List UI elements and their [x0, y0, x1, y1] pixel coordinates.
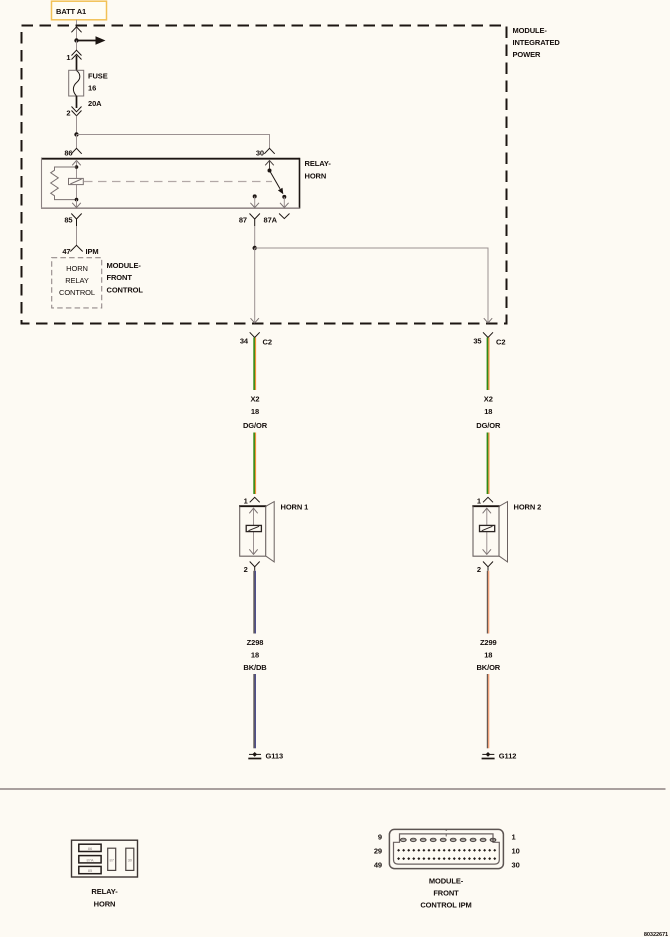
- label RELAY-HORN: [305, 159, 332, 181]
- svg-text:CONTROL: CONTROL: [107, 285, 144, 294]
- connector C2 pin 35: [473, 332, 505, 346]
- svg-text:G112: G112: [499, 751, 517, 760]
- svg-text:BK/DB: BK/DB: [243, 663, 267, 672]
- connector horn pin 1: [244, 496, 260, 505]
- svg-text:DG/OR: DG/OR: [243, 421, 268, 430]
- svg-text:47: 47: [62, 247, 70, 256]
- separator line: [0, 788, 666, 790]
- connector horn pin 2: [244, 562, 260, 575]
- wire junction across to relay pin 30: [77, 135, 270, 149]
- svg-text:87A: 87A: [86, 857, 93, 862]
- wire from BATT A1 into module: [71, 20, 81, 41]
- svg-text:HORN: HORN: [66, 264, 88, 273]
- arrow feed continues right: [77, 36, 106, 45]
- wire pin 2 down to junction: [76, 116, 78, 135]
- svg-text:HORN: HORN: [94, 899, 116, 908]
- label circuit X2 18 DG/OR right: [476, 395, 501, 431]
- svg-text:86: 86: [88, 846, 93, 851]
- svg-text:G113: G113: [266, 751, 284, 760]
- svg-text:35: 35: [473, 337, 481, 346]
- wire Z299 18 BK/OR (upper segment): [486, 571, 488, 634]
- label RELAY-HORN (connector view): [91, 887, 118, 908]
- connector view RELAY-HORN cavity layout: [72, 840, 138, 877]
- ground G112: [482, 751, 517, 760]
- relay contact 87: [250, 194, 259, 207]
- wire junction down to C2 pin 34 with arrow: [251, 248, 259, 323]
- svg-text:86: 86: [64, 148, 72, 157]
- relay mechanical link (dashed): [84, 181, 272, 183]
- relay suppression resistor (zigzag): [51, 167, 77, 200]
- svg-text:MODULE-: MODULE-: [429, 876, 464, 885]
- svg-text:HORN 1: HORN 1: [281, 502, 309, 511]
- node HORN RELAY CONTROL (dashed box): [52, 258, 102, 308]
- wire pin 85 to IPM pin 47: [76, 226, 78, 245]
- svg-text:29: 29: [374, 846, 382, 855]
- svg-text:49: 49: [374, 860, 382, 869]
- wire branch to C2 pin 35 with arrow: [255, 248, 493, 323]
- connector pin 1 (double chevron): [66, 50, 81, 62]
- connector pin 87A (V): [264, 214, 290, 225]
- label circuit X2 18 DG/OR left: [243, 395, 268, 431]
- svg-text:C2: C2: [496, 338, 505, 347]
- svg-text:2: 2: [244, 565, 248, 574]
- node BATT A1 battery feed box: [52, 1, 107, 20]
- connector horn pin 1: [477, 496, 493, 505]
- svg-text:Z298: Z298: [247, 638, 264, 647]
- wire X2 18 DG/OR (left, lower segment): [253, 433, 255, 495]
- connector pin 47 IPM chevron: [62, 245, 98, 256]
- svg-text:BK/OR: BK/OR: [476, 663, 500, 672]
- svg-text:18: 18: [484, 407, 492, 416]
- svg-text:2: 2: [66, 109, 70, 118]
- svg-text:POWER: POWER: [513, 50, 542, 59]
- connector view MODULE-FRONT CONTROL IPM: [389, 829, 503, 868]
- svg-text:20A: 20A: [88, 99, 102, 108]
- connector pin 86 chevron: [64, 148, 81, 157]
- wire Z299 18 BK/OR (lower segment): [486, 674, 488, 748]
- connector C2 pin 34: [240, 332, 272, 346]
- relay switch: pin 30 entry arrow and pivot: [265, 161, 274, 173]
- relay coil exit: junction + arrow to 85: [72, 198, 81, 208]
- svg-text:MODULE-: MODULE-: [107, 261, 142, 270]
- svg-text:85: 85: [88, 868, 93, 873]
- wire Z298 18 BK/DB (upper segment): [253, 571, 255, 634]
- svg-text:RELAY-: RELAY-: [305, 159, 332, 168]
- svg-text:30: 30: [256, 148, 264, 157]
- svg-text:FUSE: FUSE: [88, 71, 108, 80]
- label circuit Z298 18 BK/DB: [243, 638, 267, 672]
- svg-text:2: 2: [477, 565, 481, 574]
- junction dot splice of horn feed: [253, 246, 257, 250]
- svg-text:FRONT: FRONT: [107, 273, 133, 282]
- svg-text:80322671: 80322671: [644, 932, 668, 937]
- junction dot fuse output: [74, 132, 78, 136]
- relay coil branch: entry arrow pin 86: [72, 161, 81, 200]
- svg-text:1: 1: [66, 53, 70, 62]
- svg-text:BATT A1: BATT A1: [56, 7, 86, 16]
- svg-text:18: 18: [251, 650, 259, 659]
- connector horn pin 2: [477, 562, 493, 575]
- svg-text:DG/OR: DG/OR: [476, 421, 501, 430]
- label circuit Z299 18 BK/OR: [476, 638, 500, 672]
- svg-text:X2: X2: [251, 395, 260, 404]
- svg-text:18: 18: [484, 650, 492, 659]
- label MODULE-FRONT CONTROL IPM (connector view): [420, 876, 471, 909]
- relay contact 87A: [280, 195, 289, 208]
- svg-text:RELAY: RELAY: [65, 276, 89, 285]
- svg-text:85: 85: [64, 216, 72, 225]
- relay coil element box: [69, 178, 84, 184]
- wire pin 87 down to junction: [254, 226, 256, 248]
- svg-text:X2: X2: [484, 395, 493, 404]
- label MODULE-FRONT CONTROL: [107, 261, 144, 294]
- svg-text:CONTROL IPM: CONTROL IPM: [420, 901, 471, 910]
- svg-text:C2: C2: [263, 338, 272, 347]
- svg-text:RELAY-: RELAY-: [91, 887, 118, 896]
- svg-text:34: 34: [240, 337, 249, 346]
- svg-text:9: 9: [378, 832, 382, 841]
- horn HORN 2 symbol: [472, 502, 541, 562]
- svg-text:87: 87: [109, 858, 114, 863]
- svg-text:INTEGRATED: INTEGRATED: [513, 38, 561, 47]
- wire pin1 to fuse: [76, 56, 78, 71]
- svg-text:HORN: HORN: [305, 171, 327, 180]
- ground G113: [248, 751, 283, 760]
- junction dot at battery feed branch: [74, 38, 78, 42]
- svg-text:30: 30: [512, 860, 520, 869]
- svg-text:CONTROL: CONTROL: [59, 288, 95, 297]
- svg-text:18: 18: [251, 407, 259, 416]
- fuse FUSE 16 20A: [69, 70, 108, 108]
- wire junction down to relay pin 86: [76, 135, 78, 149]
- relay RELAY-HORN box: [41, 158, 300, 209]
- svg-text:87: 87: [239, 216, 247, 225]
- wire fuse to pin 2: [76, 96, 78, 108]
- svg-text:1: 1: [477, 496, 481, 505]
- label MODULE-INTEGRATED POWER: [513, 26, 561, 59]
- wire X2 18 DG/OR (right, upper segment): [487, 338, 489, 391]
- svg-text:1: 1: [244, 496, 248, 505]
- svg-text:MODULE-: MODULE-: [513, 26, 548, 35]
- svg-text:1: 1: [512, 832, 516, 841]
- wire X2 18 DG/OR (right, lower segment): [487, 433, 489, 495]
- labels IPM connector pin numbers: [374, 832, 520, 869]
- relay switch arm to 87A with arrowhead: [270, 171, 284, 195]
- svg-text:10: 10: [512, 846, 520, 855]
- connector pin 87 (Y): [239, 214, 260, 227]
- connector pin 85 (Y): [64, 214, 81, 227]
- connector pin 2 (double chevron down): [66, 107, 81, 118]
- horn HORN 1 symbol: [239, 502, 308, 562]
- svg-text:FRONT: FRONT: [433, 889, 459, 898]
- svg-text:87A: 87A: [264, 216, 278, 225]
- svg-text:HORN 2: HORN 2: [514, 502, 542, 511]
- svg-text:30: 30: [128, 858, 133, 863]
- wire X2 18 DG/OR (left, upper segment): [253, 338, 255, 391]
- wire Z298 18 BK/DB (lower segment): [253, 674, 255, 748]
- svg-text:16: 16: [88, 83, 96, 92]
- module box MODULE-INTEGRATED POWER (dashed outline): [22, 26, 507, 324]
- svg-text:Z299: Z299: [480, 638, 497, 647]
- svg-text:IPM: IPM: [86, 247, 99, 256]
- wire junction to pin 1: [76, 41, 78, 51]
- connector pin 30 chevron: [256, 148, 275, 157]
